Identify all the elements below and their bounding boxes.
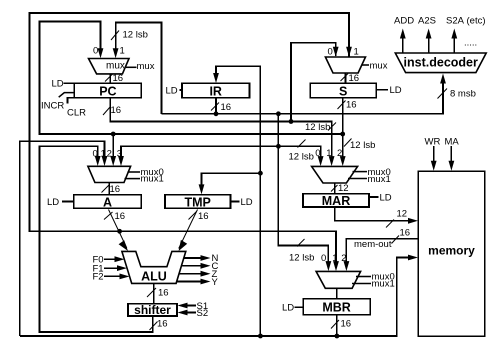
wire: IR input / TMP input feed from bottom bus	[216, 66, 260, 336]
memory U4	[418, 171, 484, 336]
register MAR	[303, 194, 369, 207]
node: bus3 to A-mux input 2 junction	[111, 132, 116, 137]
register MBR	[303, 299, 370, 315]
pin LD (TMP)	[231, 201, 240, 203]
wire: mux1 select callout (MBR-mux)	[352, 283, 371, 285]
svg-text:inst.decoder: inst.decoder	[404, 56, 478, 70]
svg-text:16: 16	[349, 73, 360, 84]
svg-text:LD: LD	[390, 85, 402, 96]
svg-text:16: 16	[110, 184, 121, 195]
wire: mux select callout	[126, 66, 137, 68]
pin INCR (PC)	[59, 93, 75, 98]
wire: shifter output feedback loop to A-mux input 0	[40, 146, 153, 332]
wire: mem-out to MBR-mux input 2	[346, 239, 418, 264]
wire: 12lsb branch vertical to A-mux-3 / MAR-mux-0 / MBR-mux-0	[278, 114, 328, 264]
wire: MAR-mux output to MAR	[334, 183, 336, 194]
svg-text:IR: IR	[209, 84, 222, 98]
wire: mux0 select callout (A-mux)	[128, 171, 141, 173]
wire: TMP input tap	[202, 173, 261, 188]
svg-text:0: 0	[93, 46, 98, 57]
svg-text:mux: mux	[370, 61, 388, 72]
node: branch junction on 12lsb line	[276, 144, 281, 149]
wire: S-mux output to S	[345, 73, 347, 83]
shifter U3	[128, 304, 177, 316]
svg-text:16: 16	[157, 319, 168, 330]
label: 12 with slash (MAR out)	[386, 220, 394, 228]
pin: MAR-mux input arrowheads	[318, 156, 324, 166]
wire: bus3 feedback to PC-mux input 0 (inner loop)	[40, 22, 343, 135]
pin LD (MAR)	[369, 196, 379, 198]
node: TMP tap junction	[258, 171, 263, 176]
pin: PC-mux input 0 arrowhead	[98, 48, 104, 58]
wire: TMP output diagonal to ALU	[179, 210, 198, 249]
register A	[74, 195, 142, 209]
svg-text:.....: .....	[464, 38, 477, 49]
wire: MAR output to memory	[335, 207, 411, 221]
label: 16 with slash (A out)	[104, 212, 113, 220]
register TMP	[165, 195, 231, 209]
label: 16 with slash (PC out)	[103, 107, 111, 116]
node: IR bus branch junction	[276, 111, 281, 116]
label: 16 with slash (MBR out)	[331, 320, 339, 329]
svg-text:shifter: shifter	[134, 303, 171, 317]
svg-text:16: 16	[221, 102, 232, 113]
label: 12 lsb with slash (MAR-mux input 2 line)	[344, 139, 352, 147]
svg-text:LD: LD	[47, 197, 59, 208]
label: 8 msb with slash	[438, 89, 448, 99]
svg-text:12: 12	[397, 209, 408, 220]
mux M4 (MAR input mux)	[312, 166, 358, 183]
svg-text:12 lsb: 12 lsb	[350, 140, 375, 151]
svg-text:ALU: ALU	[141, 270, 167, 284]
label: 16 with slash (S out)	[338, 101, 346, 110]
register S	[310, 83, 376, 98]
wire: PC output bus	[110, 98, 331, 160]
svg-text:CLR: CLR	[67, 108, 86, 119]
wire: mux select callout (S)	[362, 64, 369, 66]
svg-text:mux1: mux1	[368, 174, 391, 185]
svg-text:A: A	[103, 195, 112, 209]
wire: A-mux output to A	[108, 183, 110, 195]
pin: ALU input arrowhead from TMP	[179, 240, 188, 251]
label: 16 with slash (shifter out)	[150, 322, 158, 331]
wire: IR output bus (12 lsb / 8 msb)	[162, 78, 444, 114]
wire: A output diagonal to ALU	[109, 210, 127, 249]
register IR	[182, 83, 250, 98]
label: 16 with slash (S-mux out)	[341, 74, 349, 82]
node: PC bus to S-mux junction	[289, 119, 294, 124]
svg-text:MAR: MAR	[322, 194, 350, 208]
label: 12 lsb (PC-mux input 1) with slash	[111, 31, 119, 41]
svg-text:1: 1	[120, 46, 125, 57]
pin: PC-mux input 1 arrowhead	[113, 48, 119, 58]
wire: mux1 select callout (MAR-mux)	[348, 178, 367, 180]
svg-text:memory: memory	[428, 244, 475, 258]
svg-text:mem-out: mem-out	[354, 239, 392, 250]
wire: MBR output to bottom bus	[336, 315, 338, 336]
wire: mux0 select callout (MAR-mux)	[353, 171, 368, 173]
wire: A-mux input 3 / MAR-mux input 0 feed	[121, 146, 321, 160]
svg-text:ADD: ADD	[394, 16, 414, 27]
pin: TMP input arrowhead	[199, 184, 205, 194]
svg-text:mux: mux	[137, 61, 155, 72]
svg-text:16: 16	[111, 105, 122, 116]
pin: A-mux input arrowheads	[95, 156, 101, 166]
decoder U1 (inst.decoder)	[395, 53, 486, 73]
svg-text:F2: F2	[93, 272, 104, 283]
svg-text:S: S	[339, 84, 347, 98]
svg-text:LD: LD	[52, 79, 64, 90]
pin: memory address arrowhead	[408, 218, 418, 224]
pin N flag	[184, 257, 203, 259]
pin C flag	[182, 265, 203, 267]
wire: PC-mux output to PC	[109, 74, 111, 83]
label: 16 with slash (TMP out)	[189, 212, 197, 220]
svg-text:Y: Y	[212, 277, 219, 288]
pin LD (MBR)	[295, 306, 304, 308]
wire: decoder output ADD	[402, 36, 404, 53]
svg-text:16: 16	[115, 211, 126, 222]
wire: decoder output S2A	[453, 36, 455, 53]
wire: A-mux input 2 feed	[112, 134, 114, 160]
svg-text:A2S: A2S	[418, 16, 436, 27]
svg-text:16: 16	[341, 319, 352, 330]
node: S output junction on bus3	[340, 132, 345, 137]
svg-text:PC: PC	[99, 84, 116, 98]
svg-text:mux1: mux1	[372, 279, 395, 290]
svg-text:8 msb: 8 msb	[450, 89, 476, 100]
pin: S-mux input 1 arrowhead	[346, 47, 352, 57]
label: 12 lsb with slash (MAR-mux input 0 line)	[298, 140, 306, 148]
pin Z flag	[179, 273, 203, 275]
pin: S-mux input 0 arrowhead	[333, 47, 339, 57]
mux M1 (PC input mux)	[89, 59, 130, 74]
svg-text:16: 16	[346, 100, 357, 111]
svg-text:16: 16	[113, 73, 124, 84]
label: 12 with slash (MAR-mux out)	[331, 185, 338, 192]
wire: mux0 select callout (MBR-mux)	[356, 276, 371, 278]
svg-text:16: 16	[400, 228, 411, 239]
pin: decoder input arrowhead (8 msb)	[440, 74, 446, 84]
svg-text:LD: LD	[241, 197, 253, 208]
mux M5 (MBR input mux)	[316, 271, 361, 288]
label: 16 with slash (mem-out)	[392, 236, 400, 244]
svg-text:LD: LD	[380, 192, 392, 203]
svg-text:(etc): (etc)	[467, 16, 486, 27]
mux M2 (S input mux)	[325, 57, 365, 73]
pin S2 (shifter)	[186, 312, 196, 314]
wire: decoder output A2S	[428, 36, 430, 53]
node: MBR output junction on bottom bus	[335, 334, 340, 339]
label: 16 with slash (PC-mux out)	[105, 74, 113, 82]
label: 12 lsb with slash (MAR-mux input 1 line)	[328, 123, 336, 131]
pin CLR (PC)	[68, 98, 75, 104]
pin: memory data-in arrowhead	[408, 255, 418, 261]
pin LD (IR)	[180, 89, 183, 91]
svg-text:mux: mux	[106, 61, 125, 72]
pin S1 (shifter)	[186, 305, 196, 307]
wire: S-mux input 0 feed from PC bus	[291, 43, 336, 122]
svg-text:1: 1	[354, 47, 359, 58]
label: 12 lsb with slash (MBR-mux input 0 line)	[297, 239, 305, 247]
register PC	[74, 83, 141, 98]
svg-text:12 lsb: 12 lsb	[289, 253, 314, 264]
svg-text:12 lsb: 12 lsb	[289, 152, 314, 163]
wire: mux1 select callout (A-mux)	[125, 178, 141, 180]
svg-text:12: 12	[338, 183, 349, 194]
svg-text:S2: S2	[197, 308, 209, 319]
svg-text:MA: MA	[445, 137, 460, 148]
svg-text:TMP: TMP	[185, 195, 211, 209]
svg-text:INCR: INCR	[41, 101, 64, 112]
wire: ALU output to shifter	[153, 283, 155, 303]
node: A output junction on A bus (line-Z)	[117, 229, 122, 234]
pin: IR input arrowhead	[213, 73, 219, 83]
svg-text:16: 16	[158, 288, 169, 299]
wire: IR output stub	[215, 98, 217, 114]
pin: MBR-mux input arrowheads	[326, 261, 332, 271]
wire: feedback bus to S-mux input 1 (top outer loop)	[30, 13, 350, 263]
wire: bottom bus to A-mux input 1	[20, 141, 105, 336]
pin LD (A)	[62, 201, 74, 203]
svg-text:MBR: MBR	[322, 301, 350, 315]
svg-text:LD: LD	[282, 303, 294, 314]
svg-text:12 lsb: 12 lsb	[305, 122, 330, 133]
ALU U2	[122, 251, 186, 283]
svg-text:12 lsb: 12 lsb	[123, 30, 148, 41]
wire: S output to bus3 and MAR-mux input 2	[342, 98, 344, 160]
pin: ALU input arrowhead from A	[119, 240, 128, 251]
node: bottom bus junction at IR/TMP feed	[258, 334, 263, 339]
mux M3 (A input mux)	[88, 166, 131, 182]
label: 16 with slash (ALU out)	[147, 288, 156, 297]
label: 16 with slash (A-mux out)	[102, 185, 110, 193]
wire: bottom MBR bus	[20, 258, 411, 337]
svg-text:0: 0	[321, 253, 326, 264]
svg-text:LD: LD	[166, 86, 178, 97]
pin LD (PC)	[64, 82, 75, 84]
svg-text:mux1: mux1	[141, 174, 164, 185]
svg-text:WR: WR	[425, 137, 441, 148]
wire: MBR-mux output to MBR	[336, 288, 338, 298]
node: IR output junction	[214, 111, 219, 116]
pin V flag	[177, 281, 203, 283]
wire: IR 12 lsb to PC-mux input 1	[116, 23, 162, 114]
svg-text:S2A: S2A	[446, 16, 465, 27]
pin LD (S)	[376, 89, 388, 91]
label: 16 with slash (IR out)	[211, 103, 219, 111]
svg-text:16: 16	[198, 211, 209, 222]
svg-text:0: 0	[328, 47, 333, 58]
